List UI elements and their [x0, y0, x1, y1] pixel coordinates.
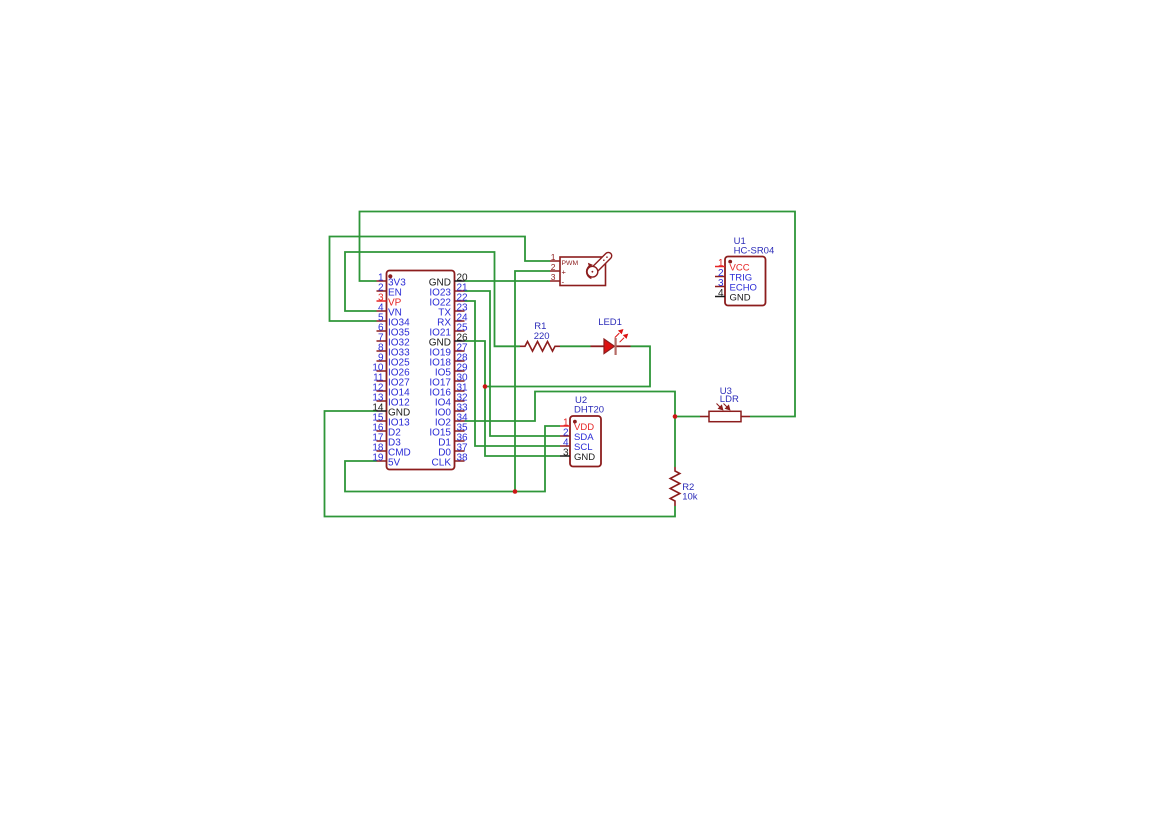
svg-text:DHT20: DHT20: [574, 405, 604, 416]
servo pin labels PWM + -: [562, 260, 579, 287]
wire net IO22: ESP32 pin22 to U2 DHT20 SCL pin4: [465, 301, 561, 446]
svg-text:19: 19: [372, 453, 384, 464]
svg-text:38: 38: [457, 453, 469, 464]
wire net 5V branch: node C up to servo M1 pin2 (+): [515, 271, 550, 492]
svg-text:LED1: LED1: [598, 317, 622, 328]
servo horn symbol: [585, 250, 615, 280]
U1 pin labels VCC TRIG ECHO GND: [730, 263, 757, 304]
svg-text:HC-SR04: HC-SR04: [734, 245, 775, 256]
svg-text:4: 4: [718, 288, 724, 299]
U3 LDR right lead: [741, 416, 750, 418]
svg-text:10k: 10k: [682, 492, 698, 503]
wire net node B to U3 LDR left lead: [675, 416, 700, 418]
junction node A dot (GND net, LED return): [483, 384, 488, 389]
LED1 triangle: [604, 339, 615, 354]
wire net node B down to R2 top lead: [674, 417, 676, 468]
svg-text:+: +: [562, 268, 567, 277]
U2 DHT20 body: [570, 416, 601, 467]
U2 pin labels VDD SDA SCL GND: [574, 422, 595, 463]
U3 LDR left lead: [700, 416, 709, 418]
U1 pin numbers 1-4: [718, 258, 724, 299]
LED1 light emission arrows: [615, 330, 628, 343]
wire net GND bottom rail: ESP32 pin14 to R2 bottom lead: [325, 411, 676, 517]
U1 pin-1 marker dot: [728, 260, 732, 264]
wire net GND: ESP32 pin20 to servo M1 pin3 (-): [465, 280, 551, 282]
resistor R1 zigzag body: [520, 342, 560, 352]
svg-text:3: 3: [563, 447, 569, 458]
U3 LDR light arrows: [717, 404, 730, 410]
ESP32 right pin labels: [429, 278, 452, 469]
servo pin stubs 1,2,3: [550, 261, 560, 281]
svg-text:PWM: PWM: [562, 260, 579, 267]
ESP32 right pin stubs (pins 20-38): [455, 281, 465, 461]
svg-text:220: 220: [534, 331, 550, 342]
wire net LED1 cathode to GND junction node A: [485, 346, 650, 386]
ESP32 right pin numbers 20-38: [457, 273, 469, 464]
ESP32 left pin stubs (pins 1-19): [377, 281, 387, 461]
U2 pin stubs 1,2,4,3: [560, 426, 570, 456]
svg-text:5V: 5V: [388, 458, 401, 469]
wire net IO2: ESP32 pin34 to LDR divider node B: [465, 392, 676, 422]
wire net 3V3: ESP32 pin1 to top rail to U3 LDR right lead: [360, 212, 796, 417]
servo pin numbers 1,2,3: [551, 252, 556, 282]
LED1 anode lead: [591, 345, 605, 347]
svg-text:1: 1: [551, 252, 556, 262]
LED1 cathode bar: [614, 338, 616, 355]
svg-text:GND: GND: [730, 293, 751, 304]
ESP32 module body: [387, 271, 455, 470]
U2 pin-1 marker dot: [573, 420, 577, 424]
svg-text:CLK: CLK: [432, 458, 452, 469]
junction node B dot (LDR divider): [673, 414, 678, 419]
wire net 5V: ESP32 pin19 to U2 DHT20 VDD pin1 (through node C): [345, 426, 560, 492]
ESP32 pin-1 marker dot: [388, 274, 392, 278]
ESP32 left pin labels: [388, 278, 411, 469]
svg-text:3: 3: [551, 272, 556, 282]
junction node C dot (5V net, servo branch): [513, 489, 518, 494]
U1 HC-SR04 body: [725, 257, 766, 306]
wire net VN: ESP32 pin4 to R1 left lead: [345, 252, 520, 346]
servo motor M1 body: [560, 257, 606, 286]
U3 LDR body rectangle: [709, 411, 741, 421]
svg-text:LDR: LDR: [720, 394, 739, 405]
resistor R2 zigzag body (vertical): [670, 467, 680, 506]
svg-text:-: -: [562, 277, 565, 286]
U1 pin stubs 1-4: [715, 267, 725, 297]
ESP32 left pin numbers 1-19: [372, 273, 384, 464]
svg-text:GND: GND: [574, 452, 595, 463]
U2 pin numbers 1,2,4,3: [563, 417, 569, 458]
wire net R1-LED1: R1 right lead to LED1 anode: [560, 345, 591, 347]
wire net IO23: ESP32 pin21 to U2 DHT20 SDA pin2: [465, 291, 561, 436]
LED1 cathode lead: [617, 345, 631, 347]
wire net GND: ESP32 pin26 down to U2 DHT20 GND pin3 (through node A): [465, 341, 561, 456]
wire net IO34: ESP32 pin5 to servo M1 pin1 PWM: [330, 237, 551, 322]
svg-text:2: 2: [551, 262, 556, 272]
